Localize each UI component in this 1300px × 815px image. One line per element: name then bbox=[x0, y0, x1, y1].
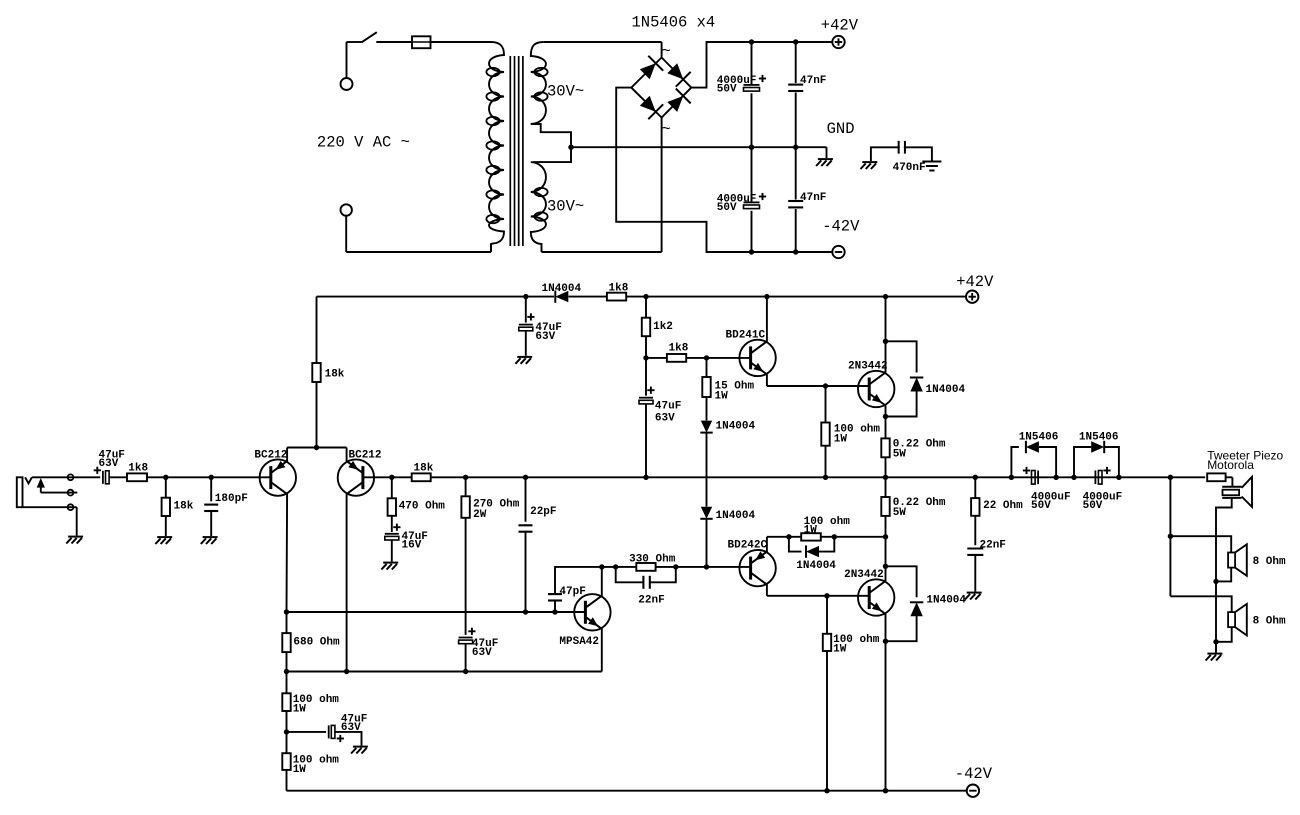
svg-text:1W: 1W bbox=[834, 434, 848, 446]
wire: BD241C emitter to drive rail bbox=[767, 374, 870, 386]
node: diode cap 2 left bbox=[1071, 475, 1076, 480]
node: output mid upper bbox=[883, 475, 888, 480]
wire: MPSA42 collector bbox=[601, 567, 603, 596]
wire: emitter rail bbox=[287, 447, 347, 449]
input terminal ring bbox=[68, 490, 74, 496]
capacitor 47uF 63V feedback bbox=[287, 713, 368, 745]
node: 100ohm drive bottom bbox=[823, 475, 828, 480]
diode 1N5406 first bbox=[1011, 431, 1058, 477]
svg-text:47nF: 47nF bbox=[800, 192, 826, 204]
label Tweeter Piezo bbox=[1207, 448, 1283, 472]
wire: 566 line bbox=[602, 566, 707, 568]
capacitor 22pF bbox=[519, 477, 557, 612]
wire: output down leg bbox=[1169, 477, 1171, 596]
node: 100ohm to rail bbox=[824, 788, 829, 793]
capacitor 180pF bbox=[204, 477, 248, 536]
transformer T1 primary winding bbox=[475, 42, 504, 252]
wire: secondary top lead to bridge bbox=[544, 42, 662, 58]
node: Q2 base junction bbox=[389, 475, 394, 480]
svg-text:50V: 50V bbox=[1031, 500, 1051, 512]
svg-text:22nF: 22nF bbox=[638, 595, 664, 607]
wire: BD242C emitter to 100ohm rail bbox=[767, 537, 886, 552]
speaker 8 Ohm lower bbox=[1228, 604, 1286, 636]
svg-text:Motorola: Motorola bbox=[1207, 458, 1254, 472]
ground: speakers bbox=[1206, 654, 1223, 661]
label 30V~ upper bbox=[547, 83, 584, 101]
svg-text:63V: 63V bbox=[99, 458, 119, 470]
wire: mains return bbox=[346, 216, 491, 252]
transistor Q3 MPSA42 bbox=[559, 594, 610, 648]
svg-text:8 Ohm: 8 Ohm bbox=[1253, 615, 1286, 627]
ground: 18k bbox=[155, 537, 172, 544]
svg-text:1W: 1W bbox=[293, 764, 307, 776]
node: speaker2 bottom bbox=[1213, 639, 1218, 644]
node: speaker1 bottom bbox=[1213, 579, 1218, 584]
svg-text:1N4004: 1N4004 bbox=[542, 283, 582, 295]
wire: BD242C collector to 2N3442l base bbox=[767, 584, 870, 596]
node: MPSA42 collector bbox=[599, 564, 604, 569]
wire: +42V amp rail bbox=[317, 296, 967, 298]
svg-text:330 Ohm: 330 Ohm bbox=[629, 553, 676, 565]
node: 330 Ohm left bbox=[613, 564, 618, 569]
wire: center tap to GND rail bbox=[571, 146, 827, 148]
node: y612 left bbox=[284, 609, 289, 614]
fuse F1 bbox=[412, 36, 431, 48]
svg-text:+42V: +42V bbox=[956, 273, 994, 291]
ground: feedback cap bbox=[351, 747, 368, 754]
transformer T1 secondary upper 30V winding bbox=[531, 42, 571, 147]
wire: y612 line bbox=[287, 611, 586, 613]
node: 2N3442u rail bbox=[883, 294, 888, 299]
svg-text:1N4004: 1N4004 bbox=[716, 421, 756, 433]
svg-text:50V: 50V bbox=[717, 202, 737, 214]
terminal -42V (amp) bbox=[955, 765, 993, 797]
svg-text:18k: 18k bbox=[414, 462, 434, 474]
resistor 270 Ohm 2W bbox=[461, 477, 519, 635]
resistor 0.22 Ohm 5W upper bbox=[881, 417, 946, 478]
bridge diode D3 (left to bottom) bbox=[640, 96, 663, 119]
node: emitter rail to 18k bbox=[314, 445, 319, 450]
capacitor 47uF 16V bbox=[385, 524, 428, 562]
wire: Q1 collector down bbox=[286, 494, 289, 612]
label 1N5406 x4 bbox=[632, 14, 716, 32]
resistor 100 ohm 1W driver bbox=[821, 386, 880, 477]
svg-text:30V~: 30V~ bbox=[547, 198, 584, 216]
resistor 1k8 rail bbox=[607, 282, 629, 300]
wire: Q2 emitter up bbox=[346, 448, 348, 462]
switch S1 (mains) bbox=[361, 32, 376, 42]
svg-text:-42V: -42V bbox=[822, 217, 860, 235]
svg-text:-42V: -42V bbox=[955, 765, 993, 783]
svg-text:50V: 50V bbox=[717, 84, 737, 96]
diode 1N4004 bias upper bbox=[700, 421, 755, 507]
node: Q2 collector bottom bbox=[344, 669, 349, 674]
wire: 2N3442u emitter bbox=[885, 406, 887, 417]
node: 47uF filter junction bbox=[523, 294, 528, 299]
capacitor 47uF 63V bias bbox=[639, 358, 681, 477]
wire: -42V rail bbox=[287, 790, 967, 792]
terminal +42V (amp) bbox=[956, 273, 994, 303]
svg-text:~: ~ bbox=[662, 43, 671, 61]
transistor Q1 BC212 bbox=[254, 450, 296, 496]
wire: input cap to R 1k8 bbox=[109, 476, 127, 478]
ground: zobel bbox=[965, 593, 982, 600]
node: center tap bbox=[568, 145, 573, 150]
capacitor 4000uF 50V upper bbox=[717, 42, 766, 147]
node: 270 Ohm junction bbox=[463, 475, 468, 480]
node: 2N3442l collector tap bbox=[883, 564, 888, 569]
speaker 8 Ohm upper bbox=[1228, 544, 1286, 576]
node: upper cap top bbox=[749, 39, 754, 44]
diode 1N4004 parallel 100ohm bbox=[789, 537, 836, 572]
mains terminal lower bbox=[341, 204, 352, 215]
wire: jack sleeve to ground bbox=[23, 507, 77, 535]
svg-text:22pF: 22pF bbox=[530, 506, 556, 518]
svg-text:MPSA42: MPSA42 bbox=[559, 636, 599, 648]
node: BD241C collector rail bbox=[764, 294, 769, 299]
resistor 18k interstage bbox=[412, 462, 434, 481]
wire: jack tip to input cap bbox=[32, 476, 100, 478]
node: 2N3442u emitter bbox=[883, 414, 888, 419]
svg-text:18k: 18k bbox=[325, 369, 345, 381]
tweeter piezo bbox=[1222, 477, 1252, 507]
capacitor 47pF bbox=[548, 567, 602, 612]
node: lower cap bottom bbox=[749, 249, 754, 254]
ground: 470nF right (earth) bbox=[922, 162, 941, 171]
svg-text:22 Ohm: 22 Ohm bbox=[983, 500, 1023, 512]
svg-text:2W: 2W bbox=[473, 509, 487, 521]
ground: 470nF left bbox=[861, 162, 878, 169]
node: 47uF63V leg bottom bbox=[463, 669, 468, 674]
wire: BD242C base line bbox=[707, 566, 751, 568]
svg-text:1W: 1W bbox=[833, 643, 847, 655]
node: lower 47nF bottom bbox=[793, 249, 798, 254]
wire: 2N3442l emitter to -42V rail bbox=[885, 641, 887, 791]
resistor 18k tail bbox=[312, 297, 345, 448]
resistor 15 Ohm 1W bbox=[702, 358, 754, 421]
resistor 1k8 input bbox=[127, 462, 149, 481]
node: output junction bbox=[1168, 475, 1173, 480]
label 30V~ lower bbox=[547, 198, 584, 216]
resistor 22 Ohm bbox=[971, 477, 1023, 545]
svg-text:5W: 5W bbox=[893, 449, 907, 461]
bridge diode D2 (top to right) bbox=[667, 63, 690, 86]
node: 100ohm par right bbox=[832, 534, 837, 539]
node: 330 Ohm right bbox=[673, 564, 678, 569]
wire: tweeter return bbox=[1216, 498, 1232, 582]
node: emitter chain to rail bbox=[883, 788, 888, 793]
node: 2N3442u collector tap bbox=[883, 339, 888, 344]
label ~ lower AC node bbox=[662, 121, 671, 139]
transistor Q8 2N3442 lower bbox=[844, 569, 894, 616]
node: lower emitter rail left bbox=[883, 534, 888, 539]
svg-text:2N3442: 2N3442 bbox=[844, 569, 884, 581]
node: 47pF bottom bbox=[552, 609, 557, 614]
node: diode cap 1 left bbox=[1009, 475, 1014, 480]
svg-text:180pF: 180pF bbox=[215, 493, 248, 505]
svg-text:16V: 16V bbox=[402, 540, 422, 552]
wire: secondary bottom lead to bridge bbox=[542, 118, 662, 253]
diode 1N4004 rail bbox=[542, 283, 582, 303]
svg-text:47nF: 47nF bbox=[800, 75, 826, 87]
svg-text:1k8: 1k8 bbox=[669, 342, 689, 354]
svg-text:1N5406: 1N5406 bbox=[1019, 431, 1059, 443]
svg-text:1k8: 1k8 bbox=[609, 282, 629, 294]
node: 180pF junction bbox=[209, 475, 214, 480]
capacitor 47uF 63V rail filter bbox=[519, 297, 562, 356]
svg-text:BC212: BC212 bbox=[254, 450, 287, 462]
transistor Q6 2N3442 upper bbox=[848, 361, 894, 408]
resistor 18k to ground bbox=[162, 477, 194, 536]
node: diode cap 1 right bbox=[1053, 475, 1058, 480]
capacitor 22nF (330 par) bbox=[616, 567, 676, 607]
bridge rectifier 1N5406 x4 diamond bbox=[631, 58, 691, 118]
resistor 470 Ohm bbox=[388, 477, 446, 532]
transistor Q7 BD242C bbox=[728, 540, 776, 587]
node: speaker1 feed bbox=[1168, 534, 1173, 539]
node: bias to BD242C base bbox=[704, 564, 709, 569]
resistor 100 ohm 1W lower bbox=[823, 596, 880, 791]
diode 1N5406 second bbox=[1074, 431, 1119, 477]
svg-text:1k2: 1k2 bbox=[653, 321, 673, 333]
wire: speaker2 return bbox=[1216, 627, 1232, 642]
resistor 680 Ohm bbox=[282, 612, 340, 672]
diode 1N4004 bias lower bbox=[700, 507, 755, 567]
transistor Q2 BC212 bbox=[338, 450, 382, 496]
terminal -42V (PSU) bbox=[822, 217, 860, 258]
wire: MPSA42 emitter bbox=[287, 629, 602, 672]
svg-text:BC212: BC212 bbox=[349, 450, 382, 462]
node: 100ohm drive junction bbox=[823, 383, 828, 388]
svg-text:470nF: 470nF bbox=[893, 162, 926, 174]
svg-text:1N4004: 1N4004 bbox=[716, 510, 756, 522]
diode 1N4004 across lower output bbox=[886, 566, 967, 641]
resistor 1k2 bbox=[642, 297, 673, 358]
svg-text:22nF: 22nF bbox=[980, 539, 1006, 551]
svg-text:GND: GND bbox=[827, 120, 855, 138]
ground: 47uF 16V bbox=[381, 563, 398, 570]
node: fb cap junction bbox=[284, 729, 289, 734]
capacitor 22nF zobel bbox=[967, 539, 1006, 591]
svg-text:1N4004: 1N4004 bbox=[796, 560, 836, 572]
label ~ upper AC node bbox=[662, 43, 671, 61]
wire: mains live from switch to fuse to transformer primary bbox=[347, 42, 492, 78]
svg-text:BD241C: BD241C bbox=[726, 330, 766, 342]
resistor 1k8 bias feed bbox=[646, 342, 751, 361]
svg-text:47pF: 47pF bbox=[559, 586, 585, 598]
capacitor 4000uF 50V output 2 bbox=[1083, 467, 1123, 512]
svg-text:47uF: 47uF bbox=[655, 401, 681, 413]
transformer T1 secondary lower 30V winding bbox=[531, 147, 571, 252]
svg-text:1N5406 x4: 1N5406 x4 bbox=[632, 14, 716, 32]
svg-text:470 Ohm: 470 Ohm bbox=[399, 500, 446, 512]
capacitor 4000uF 50V output 1 bbox=[1023, 467, 1071, 512]
node: upper cap bottom bbox=[749, 145, 754, 150]
wire: 2N3442l emitter bbox=[885, 614, 887, 641]
capacitor 47uF 63V input bbox=[94, 449, 125, 484]
wire: GND rail stub and ground bbox=[816, 147, 833, 166]
wire: bridge + output to +42V rail bbox=[691, 42, 832, 88]
wire: jack ring stub bbox=[41, 492, 78, 494]
svg-text:1W: 1W bbox=[804, 524, 818, 536]
resistor series tweeter bbox=[1207, 473, 1232, 486]
diode 1N4004 across upper output bbox=[886, 341, 966, 416]
svg-text:BD242C: BD242C bbox=[728, 540, 768, 552]
transformer T1 core bbox=[510, 56, 523, 246]
wire: main output line bbox=[646, 476, 1205, 478]
svg-text:220 V AC ~: 220 V AC ~ bbox=[317, 134, 410, 152]
svg-text:1N4004: 1N4004 bbox=[926, 595, 966, 607]
node: upper 47nF top bbox=[793, 39, 798, 44]
svg-text:8 Ohm: 8 Ohm bbox=[1253, 556, 1286, 568]
ground: input jack bbox=[66, 537, 83, 544]
resistor 0.22 Ohm 5W lower bbox=[881, 477, 946, 537]
svg-text:~: ~ bbox=[662, 121, 671, 139]
wire: speaker2 feed bbox=[1170, 596, 1231, 612]
terminal +42V (PSU) bbox=[821, 17, 859, 49]
wire: 2N3442u collector bbox=[885, 297, 887, 373]
ground: rail filter cap bbox=[515, 357, 532, 364]
node: diode cap 2 right bbox=[1116, 475, 1121, 480]
svg-text:50V: 50V bbox=[1083, 500, 1103, 512]
svg-text:1k8: 1k8 bbox=[128, 462, 148, 474]
wire: Q2 base from node bbox=[362, 476, 392, 478]
svg-text:2N3442: 2N3442 bbox=[848, 361, 888, 373]
bridge diode D4 (bottom to right) bbox=[667, 89, 690, 112]
wire: main line Q2base-18k-270 bbox=[392, 476, 526, 478]
capacitor 470nF mains filter bbox=[871, 141, 932, 174]
wire: speaker1 return bbox=[1216, 568, 1231, 582]
capacitor 4000uF 50V lower bbox=[717, 147, 766, 252]
node: 18k junction bbox=[163, 475, 168, 480]
resistor 100 ohm 1W fb upper bbox=[282, 672, 339, 732]
resistor 100 ohm 1W (BD242C) bbox=[801, 516, 850, 541]
svg-text:63V: 63V bbox=[655, 412, 675, 424]
input jack J1 bbox=[17, 477, 45, 507]
node: 47uF bias bottom bbox=[643, 475, 648, 480]
svg-text:680 Ohm: 680 Ohm bbox=[293, 637, 340, 649]
svg-text:63V: 63V bbox=[472, 647, 492, 659]
svg-text:18k: 18k bbox=[174, 500, 194, 512]
wire: 2N3442l collector bbox=[885, 537, 887, 581]
input terminal tip bbox=[68, 474, 74, 480]
svg-text:63V: 63V bbox=[341, 722, 361, 734]
capacitor 47nF upper bbox=[788, 42, 826, 147]
svg-text:1W: 1W bbox=[715, 390, 729, 402]
wire: Q1 emitter up bbox=[286, 448, 288, 462]
node: 2N3442l emitter bbox=[883, 639, 888, 644]
svg-text:63V: 63V bbox=[535, 331, 555, 343]
node: upper 47nF bottom bbox=[793, 145, 798, 150]
bridge diode D1 (left to top) bbox=[640, 56, 663, 79]
node: 1k2 top bbox=[643, 294, 648, 299]
wire: Q2 collector down bbox=[346, 494, 348, 672]
node: 22 Ohm top bbox=[973, 475, 978, 480]
wire: main line to 47uF63V leg bbox=[526, 476, 647, 478]
capacitor 47nF lower bbox=[788, 147, 826, 252]
label GND bbox=[827, 120, 855, 138]
svg-text:30V~: 30V~ bbox=[547, 83, 584, 101]
input terminal sleeve bbox=[68, 504, 74, 510]
node: 1k2 bottom / 1k8 left bbox=[643, 355, 648, 360]
wire: bridge - output elbow to -42V rail bbox=[616, 88, 832, 252]
wire: speaker return down bbox=[1215, 581, 1217, 652]
svg-text:1W: 1W bbox=[293, 704, 307, 716]
svg-text:1N5406: 1N5406 bbox=[1079, 431, 1119, 443]
svg-text:5W: 5W bbox=[893, 507, 907, 519]
node: 680 top bbox=[284, 669, 289, 674]
svg-text:+42V: +42V bbox=[821, 17, 859, 35]
wire: speaker1 feed bbox=[1170, 536, 1231, 552]
node: 22pF bottom bbox=[523, 609, 528, 614]
mains terminal upper bbox=[341, 78, 353, 90]
wire: 1k8 to Q1 base bbox=[147, 476, 272, 478]
resistor 100 ohm 1W fb lower bbox=[282, 732, 339, 791]
label 220 V AC bbox=[317, 134, 410, 152]
resistor 330 Ohm bbox=[629, 553, 676, 571]
wire: BD241C collector bbox=[766, 297, 768, 342]
capacitor 47uF 63V (270 Ohm leg) bbox=[459, 628, 499, 672]
svg-text:1N4004: 1N4004 bbox=[926, 384, 966, 396]
node: 100ohm low junction bbox=[824, 593, 829, 598]
node: 100ohm par left bbox=[786, 534, 791, 539]
node: 22pF junction bbox=[523, 475, 528, 480]
ground: 180pF bbox=[201, 537, 218, 544]
transistor Q5 BD241C bbox=[726, 330, 776, 377]
node: bias chain top bbox=[704, 355, 709, 360]
